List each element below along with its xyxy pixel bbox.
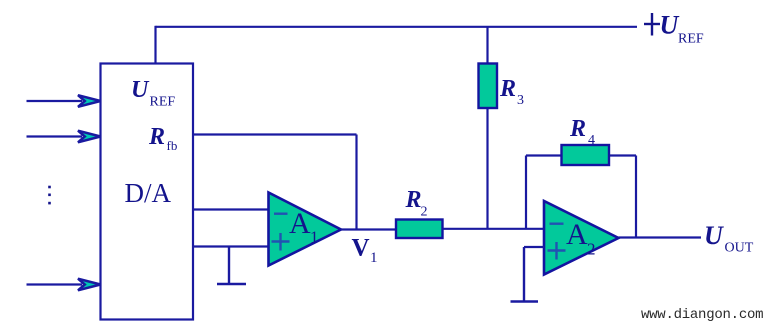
plus sign A1 [272,233,290,251]
wire A2 output [619,236,702,238]
plus sign A2 [548,242,566,260]
minus sign A1 [274,212,288,214]
wire A1 non-inverting input [192,245,268,247]
svg-text:fb: fb [167,138,178,153]
svg-text:2: 2 [587,240,596,259]
input arrow 1 [27,95,101,107]
wire A2 non-inverting input [524,246,544,248]
wire DAC top stub [154,26,156,64]
ground A2 [511,247,539,302]
input arrow 2 [27,131,101,143]
svg-text:R: R [499,76,516,102]
svg-text:2: 2 [421,205,428,220]
label U_OUT (output) [704,221,754,256]
wire R_fb feedback horizontal [192,133,357,135]
label +U_REF (reference supply) [644,11,704,47]
svg-text:1: 1 [310,228,319,247]
ground A1 [217,247,246,285]
resistor R4 [562,145,610,165]
svg-text:U: U [660,11,680,40]
D/A converter block [101,64,194,320]
svg-text:A: A [289,207,311,240]
svg-text:4: 4 [588,133,595,148]
resistor R3 [479,64,498,109]
svg-text:REF: REF [678,32,704,47]
wire A1 inverting input [192,208,268,210]
svg-text:3: 3 [517,93,524,108]
svg-text:R: R [148,124,165,150]
wire R4 loop right vertical [635,156,637,238]
svg-text:A: A [566,218,588,251]
svg-text:1: 1 [370,250,378,266]
svg-text:U: U [704,221,724,250]
wire R2 to A2 inverting input [443,228,545,230]
svg-text:U: U [131,77,150,103]
svg-text:OUT: OUT [725,241,754,256]
svg-text:R: R [405,187,422,213]
minus sign A2 [550,222,564,224]
input arrow 3 [27,279,101,291]
ellipsis dots (input bus continuation) [48,186,51,205]
svg-text:D/A: D/A [125,178,172,208]
op-amp A2 [544,201,619,275]
resistor R2 [396,220,443,239]
svg-text:V: V [352,235,370,262]
wire A1 output [341,228,396,230]
op-amp A1 [269,193,342,266]
wire R4 loop horizontal [526,154,636,156]
wire top reference bus [156,26,638,28]
svg-text:REF: REF [150,95,176,110]
wire R4 loop left vertical [525,156,527,229]
svg-text:R: R [569,116,586,142]
wire R_fb feedback vertical [355,135,357,230]
svg-text:www.diangon.com: www.diangon.com [641,307,763,323]
wire R3 vertical (top bus to summing node) [486,27,488,229]
